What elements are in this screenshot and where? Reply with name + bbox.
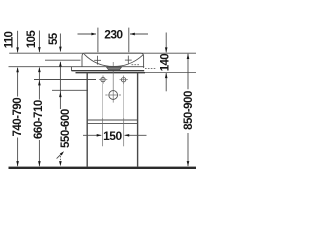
node arrow down 110 at rim: [16, 47, 19, 52]
node arrow up 550 at reference: [59, 92, 62, 97]
node arrow down 850-900 at floor: [187, 161, 190, 166]
wire fixing hole extension left: [102, 84, 104, 118]
node arrow down 140 at rim: [165, 47, 168, 52]
node arrow down 740-790 at floor: [16, 161, 19, 166]
svg-text:850-900: 850-900: [183, 91, 195, 130]
wire dim 230 line left: [78, 33, 97, 35]
node plate bottom edge: [72, 70, 145, 72]
svg-text:140: 140: [160, 54, 172, 71]
wire dim 150 line right: [125, 134, 147, 136]
wire dim line 850-900 bottom: [187, 133, 189, 166]
wire dim line 140 top: [165, 33, 167, 53]
wire dim line 740-790 top: [17, 31, 19, 53]
wire dim line 550-600 middle: [59, 62, 61, 109]
node arrow up 105 at underside: [38, 67, 41, 72]
wire dim line 550-600 top: [59, 34, 61, 52]
node arrow down 105 at rim: [38, 47, 41, 52]
wire hidden plate edge dashed: [145, 67, 156, 69]
wire hidden overflow dashed: [132, 64, 140, 66]
node fixing hole left: [101, 77, 105, 81]
svg-text:230: 230: [104, 28, 123, 42]
node frame right leg: [137, 73, 139, 167]
wire dim 230 extension right: [128, 28, 130, 53]
node arrow left 230 right: [130, 33, 135, 36]
wire 55-reference line: [45, 59, 81, 61]
svg-text:105: 105: [26, 30, 38, 48]
svg-text:550-600: 550-600: [60, 109, 72, 148]
node arrow up 55 at reference: [59, 62, 62, 67]
node arrow down 660-710 at floor: [38, 161, 41, 166]
wire dim line 660-710 bottom: [38, 140, 40, 166]
node cross tap hole right: [125, 56, 132, 65]
node arrow up 110 at underside: [16, 67, 19, 72]
wire crossbar top: [87, 119, 137, 121]
svg-text:660-710: 660-710: [33, 100, 45, 139]
node basin outline front view: [82, 53, 144, 68]
node bowl inner curve: [84, 54, 143, 66]
node arrow down 55 at rim: [59, 47, 62, 52]
svg-text:55: 55: [48, 32, 60, 45]
node 550-600 leader line: [57, 154, 62, 159]
node arrow left 150 right: [124, 134, 129, 137]
node cross tap hole left: [94, 56, 101, 65]
node frame left leg: [86, 73, 88, 167]
wire dim 230 extension left: [97, 28, 99, 53]
wire fixing-bolt line: [34, 79, 96, 81]
node arrow up 660 at bolt line: [38, 80, 41, 85]
wire crossbar bottom: [87, 122, 137, 124]
wire underside line: [9, 66, 145, 68]
wire dim line 660-710 top: [38, 31, 40, 53]
node arrow up 140 at bracket: [165, 73, 168, 78]
wire dim line 740-790 middle: [17, 68, 19, 97]
svg-text:110: 110: [4, 31, 16, 48]
node arrow right 150 left: [97, 134, 102, 137]
wire bracket bottom line: [76, 72, 146, 74]
node drain trapezoid: [106, 67, 121, 70]
node arrow up 850-900 at rim: [187, 54, 190, 59]
wire dim line 850-900 top: [187, 54, 189, 90]
svg-text:150: 150: [103, 129, 122, 143]
wire dim line 660-710 middle: [38, 68, 40, 100]
node inlet circle: [109, 91, 118, 100]
ground floor line: [9, 167, 197, 169]
wire rim extension line: [9, 52, 196, 54]
wire dim 150 line left: [83, 134, 101, 136]
node arrow right 230 left: [91, 33, 96, 36]
wire 550-reference line: [52, 89, 88, 91]
svg-text:740-790: 740-790: [12, 98, 24, 137]
node arrow leader 550-600: [60, 151, 64, 155]
wire dim 230 line right: [130, 33, 148, 35]
wire dim line 740-790 bottom: [17, 138, 19, 167]
node plate left edge: [71, 67, 73, 71]
wire dim line 140 bottom: [165, 73, 167, 92]
wire fixing hole extension right: [123, 84, 125, 118]
node fixing hole right: [121, 78, 125, 82]
wire centre line drain: [112, 62, 114, 103]
wire dim line 550-600 bottom: [59, 156, 61, 162]
node arrow down 550-600 at floor: [59, 161, 62, 166]
